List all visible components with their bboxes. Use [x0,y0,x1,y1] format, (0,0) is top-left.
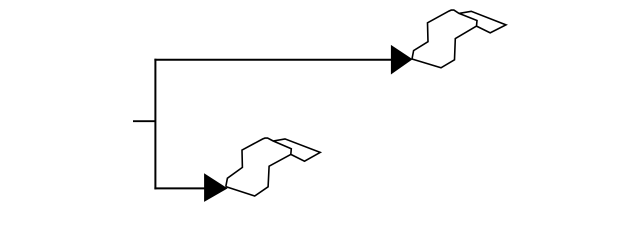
wire bottom branch [154,187,205,189]
scribble blob top [412,10,506,68]
scribble blob bottom [226,138,320,196]
arrowhead top [391,45,413,75]
arrowhead bottom [204,173,228,202]
wire trunk (vertical) [154,59,156,190]
wire top branch [154,59,392,61]
wire stub (left input tick) [133,120,155,122]
